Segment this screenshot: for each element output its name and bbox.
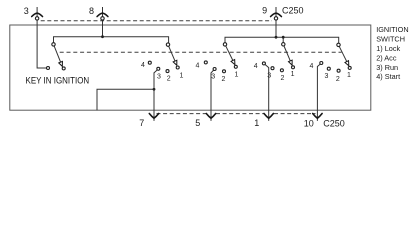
svg-text:10: 10 (304, 119, 314, 129)
svg-text:2: 2 (336, 76, 340, 83)
svg-text:7: 7 (139, 118, 144, 128)
svg-text:9: 9 (262, 6, 267, 16)
svg-text:2: 2 (281, 75, 285, 82)
svg-text:C250: C250 (282, 6, 304, 16)
svg-text:4: 4 (309, 63, 313, 70)
svg-text:3) Run: 3) Run (376, 63, 398, 72)
svg-text:KEY IN IGNITION: KEY IN IGNITION (26, 76, 90, 86)
svg-text:4) Start: 4) Start (376, 72, 400, 81)
svg-text:1: 1 (291, 71, 295, 78)
svg-text:1) Lock: 1) Lock (376, 44, 400, 53)
svg-text:3: 3 (157, 74, 161, 81)
svg-text:2: 2 (221, 76, 225, 83)
svg-text:1: 1 (235, 72, 239, 79)
svg-text:C250: C250 (323, 119, 345, 129)
svg-text:3: 3 (324, 73, 328, 80)
svg-text:1: 1 (254, 118, 259, 128)
svg-text:2) Acc: 2) Acc (376, 53, 397, 62)
svg-text:1: 1 (347, 72, 351, 79)
svg-text:2: 2 (167, 76, 171, 83)
svg-text:8: 8 (89, 6, 94, 16)
svg-text:5: 5 (195, 118, 200, 128)
svg-text:3: 3 (24, 6, 29, 16)
svg-text:1: 1 (180, 73, 184, 80)
svg-text:IGNITION: IGNITION (376, 25, 408, 34)
svg-text:4: 4 (254, 63, 258, 70)
svg-text:SWITCH: SWITCH (376, 35, 405, 44)
svg-text:4: 4 (141, 62, 145, 69)
svg-text:3: 3 (267, 73, 271, 80)
svg-text:3: 3 (211, 73, 215, 80)
svg-text:4: 4 (196, 62, 200, 69)
